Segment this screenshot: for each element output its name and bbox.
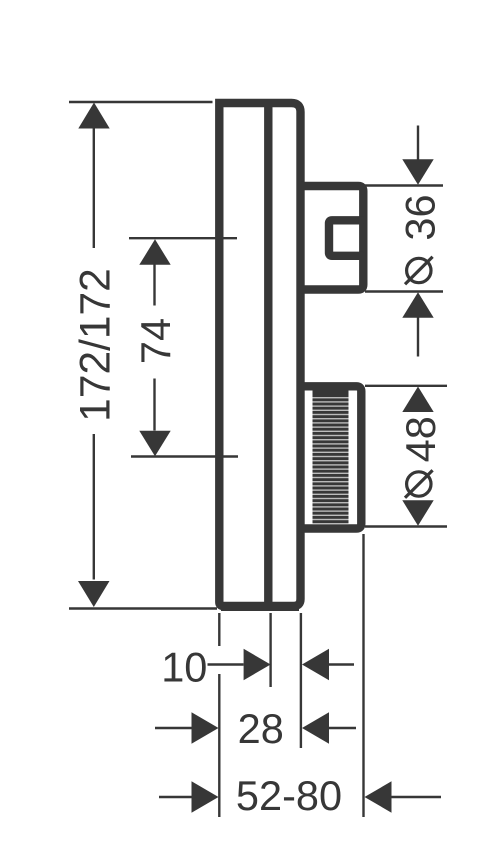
svg-text:10: 10	[161, 643, 207, 690]
svg-text:36: 36	[397, 194, 444, 240]
svg-text:172/172: 172/172	[73, 268, 120, 422]
svg-text:74: 74	[132, 318, 179, 364]
svg-text:52-80: 52-80	[236, 772, 342, 819]
svg-text:48: 48	[397, 416, 444, 462]
svg-text:28: 28	[238, 705, 284, 752]
